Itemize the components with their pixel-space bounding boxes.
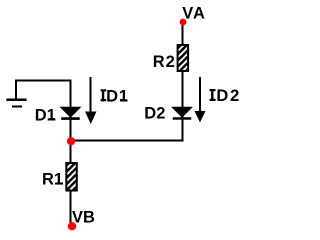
svg-text:R1: R1 (42, 171, 63, 189)
svg-text:D2: D2 (144, 104, 165, 122)
svg-text:R2: R2 (153, 53, 176, 71)
svg-text:VA: VA (182, 4, 206, 22)
svg-text:VB: VB (72, 209, 95, 227)
svg-text:D1: D1 (35, 106, 56, 124)
